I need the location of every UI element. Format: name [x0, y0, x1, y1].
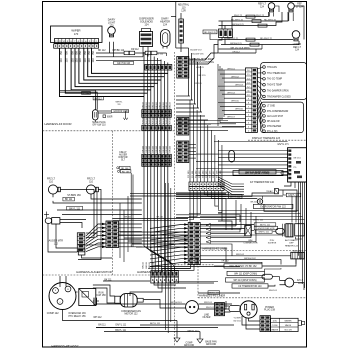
svg-text:THJ-DAMPER OPEN: THJ-DAMPER OPEN — [267, 90, 289, 93]
dispenser wire labels — [59, 51, 95, 63]
svg-text:RY-L1 (W): RY-L1 (W) — [267, 131, 278, 133]
main connector labels — [167, 227, 175, 245]
svg-text:OR 111: OR 111 — [168, 243, 176, 245]
extra top right wires — [219, 45, 263, 54]
mid horizontal pair — [113, 217, 189, 221]
svg-text:OR 170: OR 170 — [194, 83, 202, 85]
label WH 112 disp conn — [239, 170, 276, 174]
svg-text:WH 172: WH 172 — [234, 15, 243, 17]
svg-text:HEATER 124: HEATER 124 — [285, 245, 299, 248]
label HARNESS-GASKET — [137, 270, 163, 274]
evap down verticals — [222, 199, 226, 230]
labels yl-wh — [233, 318, 241, 323]
svg-text:HARNESS-WD ASSY: HARNESS-WD ASSY — [51, 344, 78, 348]
svg-text:WH 165: WH 165 — [231, 101, 239, 103]
wire lower light run2 — [221, 41, 299, 46]
svg-text:OR110: OR110 — [163, 145, 165, 153]
left edge connector block A — [177, 118, 189, 136]
ref light 1 bulb — [258, 3, 275, 12]
label bk-yl boxed 2 — [286, 193, 301, 197]
boxed label wh112 disp conn mid — [233, 171, 289, 176]
label fz thermistor 140 — [250, 181, 275, 184]
trunk connector block 2 — [142, 125, 172, 130]
terminal box lower — [261, 102, 304, 133]
svg-text:WH 161: WH 161 — [206, 307, 215, 309]
svg-text:LT 124: LT 124 — [296, 6, 304, 8]
svg-text:DEF HEATER 170 BK 162: DEF HEATER 170 BK 162 — [229, 265, 257, 268]
wire wh-yl long — [96, 327, 218, 329]
svg-text:BK 111: BK 111 — [168, 227, 175, 229]
svg-text:DEF: DEF — [289, 243, 294, 245]
svg-text:BK/WH 170: BK/WH 170 — [230, 43, 242, 45]
section divider harness-auger — [43, 274, 175, 276]
svg-text:RD 166: RD 166 — [122, 171, 130, 173]
label HARNESS-WD ASSY — [51, 344, 78, 348]
vertical wires right mid — [189, 48, 201, 112]
trunk label band 4 — [142, 261, 154, 268]
svg-text:RUN: RUN — [99, 292, 104, 294]
svg-text:WH 112 (DISP CONN): WH 112 (DISP CONN) — [245, 172, 269, 175]
label st-brn 166 — [67, 194, 81, 197]
wires from hot liner to bar — [189, 40, 219, 64]
svg-text:OR110: OR110 — [159, 145, 161, 153]
svg-text:SLEEVE: SLEEVE — [268, 243, 277, 245]
svg-text:BK 111: BK 111 — [251, 202, 259, 204]
svg-text:GY 164: GY 164 — [202, 170, 204, 178]
mid horizontal pair2 — [130, 194, 283, 196]
svg-text:OR110: OR110 — [156, 145, 158, 153]
svg-text:OR 112: OR 112 — [82, 93, 90, 95]
labels bluw — [190, 50, 206, 86]
section divider vertical left — [112, 131, 114, 275]
svg-text:BK-WH 170: BK-WH 170 — [204, 32, 216, 34]
trunk bottom connector — [151, 271, 179, 283]
dispenser pin row 1 — [55, 39, 99, 44]
bottom right pin strip — [215, 303, 225, 316]
dispenser wire fan — [60, 48, 168, 96]
svg-text:GRN/OR 110: GRN/OR 110 — [113, 111, 127, 113]
label harness-hot-liner — [188, 58, 215, 64]
dispenser solenoid — [139, 18, 154, 57]
svg-text:P5: P5 — [294, 167, 297, 169]
svg-text:AUGER: AUGER — [119, 153, 127, 156]
small resistor — [123, 118, 127, 120]
terminal box upper — [261, 63, 307, 100]
svg-text:GY 168: GY 168 — [217, 170, 219, 178]
svg-text:WH 167: WH 167 — [227, 117, 235, 119]
ground comp — [150, 321, 194, 348]
bottom right wires1 — [214, 259, 304, 292]
svg-text:WR 161: WR 161 — [204, 302, 213, 304]
strip to box links — [257, 67, 262, 131]
main connector right arrows — [206, 200, 256, 243]
compressor circle — [47, 283, 76, 315]
diagonal bundle evap — [218, 177, 244, 194]
label harness-fz liner — [203, 246, 228, 250]
inline connector pair 2 — [145, 51, 157, 55]
wire lower light run — [219, 38, 294, 41]
freezer right wires — [119, 224, 142, 247]
plug bottom wires — [242, 316, 260, 329]
svg-text:RD-WH 172: RD-WH 172 — [231, 19, 244, 21]
svg-text:OR110: OR110 — [149, 145, 151, 153]
svg-text:BLU/W 191: BLU/W 191 — [192, 54, 204, 56]
boxed label fz thermistor2 — [232, 284, 268, 288]
ground base pan — [150, 332, 217, 347]
svg-text:OR110: OR110 — [146, 145, 148, 153]
inline connector pair 1 — [124, 51, 135, 55]
terminal strip left wires — [218, 68, 246, 126]
power plug — [229, 301, 276, 318]
capsule component mid — [229, 151, 235, 163]
svg-text:POWER: POWER — [265, 307, 274, 309]
connector down wires — [148, 265, 240, 273]
svg-text:WH/BK 112: WH/BK 112 — [112, 50, 125, 52]
label bn 111 — [98, 325, 106, 327]
svg-text:WH 172: WH 172 — [256, 15, 265, 17]
svg-text:GE 161: GE 161 — [293, 158, 301, 160]
label bk 111 comp — [104, 279, 112, 281]
neutral component — [179, 13, 184, 52]
svg-text:WH 162: WH 162 — [231, 76, 239, 78]
svg-text:PTC RELAY 156: PTC RELAY 156 — [68, 315, 86, 318]
svg-text:BK 170: BK 170 — [199, 75, 207, 77]
dispenser pin row 2 — [54, 44, 99, 48]
svg-text:(XX): (XX) — [273, 321, 277, 323]
ptc relay — [68, 289, 95, 318]
svg-text:GN/YL 111: GN/YL 111 — [288, 195, 299, 197]
svg-text:110: 110 — [49, 181, 53, 184]
horiz runs to right edge — [200, 211, 305, 220]
svg-text:WH 113 (DISP CONN): WH 113 (DISP CONN) — [233, 280, 256, 282]
svg-text:RT1-COMPRESSOR: RT1-COMPRESSOR — [267, 111, 289, 113]
svg-text:BK110: BK110 — [163, 101, 165, 108]
svg-text:124: 124 — [260, 6, 265, 8]
svg-text:RTD-HEATER: RTD-HEATER — [267, 125, 282, 128]
svg-text:BASE PAN: BASE PAN — [205, 340, 217, 343]
svg-text:GROUND: GROUND — [206, 344, 217, 346]
label triac — [266, 189, 278, 194]
svg-text:WATER: WATER — [271, 328, 279, 331]
svg-text:GR-YLW 110: GR-YLW 110 — [117, 63, 131, 65]
svg-text:GY 169: GY 169 — [220, 170, 222, 178]
dairy light wires — [110, 42, 114, 57]
wires below control board — [284, 182, 295, 188]
svg-text:BK110: BK110 — [166, 101, 168, 108]
labels top runs — [98, 49, 164, 55]
svg-text:BK 111: BK 111 — [104, 279, 112, 281]
bottom long wires — [140, 323, 234, 333]
svg-text:AUX-AUX STAT: AUX-AUX STAT — [267, 115, 284, 118]
svg-text:BK/WH 170: BK/WH 170 — [232, 24, 244, 26]
top right corner wires — [275, 6, 304, 40]
svg-text:170: 170 — [109, 25, 114, 28]
def bimetal — [245, 226, 252, 236]
main connector right exits — [200, 226, 244, 262]
label evaporator fan — [253, 204, 293, 208]
frz light 1 — [47, 178, 60, 195]
svg-text:BLU/W 172: BLU/W 172 — [190, 50, 202, 52]
svg-text:FUSE: FUSE — [191, 256, 197, 258]
svg-text:111: 111 — [117, 104, 121, 106]
wire top lights run1 — [232, 12, 269, 18]
section divider vertical right-bottom — [197, 251, 199, 298]
dispenser control box — [51, 26, 103, 42]
central trunk bundle — [144, 52, 174, 272]
trunk label band 3 — [142, 145, 171, 153]
svg-text:GY 165: GY 165 — [206, 170, 208, 178]
label display harness — [248, 137, 306, 140]
svg-text:OR 162: OR 162 — [221, 261, 229, 263]
svg-text:OR110: OR110 — [170, 145, 172, 153]
svg-text:BIM: BIM — [248, 240, 252, 242]
wire top lights run3 — [219, 12, 283, 27]
tall terminal strip — [246, 68, 258, 133]
label bk-yl boxed 1 — [229, 195, 243, 199]
svg-text:HARNESS-FZ DOOR: HARNESS-FZ DOOR — [44, 122, 71, 126]
svg-text:GN/YL 171: GN/YL 171 — [277, 144, 289, 146]
dairy heater — [160, 18, 170, 49]
svg-text:GY 162: GY 162 — [195, 170, 197, 178]
neutral wires — [171, 2, 189, 48]
boxed label wh113 — [226, 278, 265, 282]
mid verticals — [120, 183, 171, 333]
boxed label wh111 — [227, 271, 265, 275]
svg-text:LINE: LINE — [204, 314, 210, 316]
section divider vertical center — [174, 52, 176, 347]
top right bar wires — [219, 17, 233, 45]
svg-text:COMP: COMP — [186, 342, 193, 344]
svg-text:GY 161: GY 161 — [192, 170, 194, 178]
left pin strip — [106, 221, 119, 248]
stack down wires — [131, 173, 133, 247]
svg-text:BK110: BK110 — [149, 101, 151, 108]
frz light 2 — [86, 178, 98, 195]
svg-text:CONNECTOR: CONNECTOR — [243, 243, 257, 245]
top right connector bar — [219, 29, 233, 38]
section divider harness-fz door — [43, 130, 175, 132]
svg-text:RH-ACE DR: RH-ACE DR — [267, 120, 280, 123]
label bk 111 — [63, 197, 75, 201]
trunk label band 2 — [142, 116, 171, 124]
wd 163 block — [291, 250, 304, 259]
label wh-yl 111 — [116, 102, 124, 107]
boxed label bk-wh 170 — [203, 30, 219, 40]
wire gr-ylw long — [96, 61, 162, 65]
ice maker wires — [60, 90, 129, 122]
svg-text:REF: REF — [297, 4, 302, 6]
svg-text:DISPLAY HARNESS 123: DISPLAY HARNESS 123 — [252, 137, 281, 140]
small component bottom — [78, 249, 112, 258]
svg-text:YL/WH: YL/WH — [234, 318, 241, 320]
ice maker plug capsule — [93, 110, 99, 120]
connector strip mid — [189, 182, 224, 191]
svg-text:HARNESS-AUGER MOTOR: HARNESS-AUGER MOTOR — [76, 270, 112, 274]
svg-text:MOTOR 122: MOTOR 122 — [125, 314, 139, 316]
svg-text:OR110: OR110 — [142, 145, 144, 153]
svg-text:GR/YL 111: GR/YL 111 — [258, 232, 269, 234]
svg-text:CONDENSER FAN: CONDENSER FAN — [121, 310, 141, 313]
legend side part — [298, 321, 305, 326]
svg-text:BK111: BK111 — [142, 261, 144, 268]
small fuse box — [190, 256, 198, 262]
svg-text:WH 163: WH 163 — [235, 84, 243, 86]
svg-text:WH/YL 111: WH/YL 111 — [208, 293, 220, 295]
svg-text:GY 166: GY 166 — [210, 170, 212, 178]
thermistor capsule — [262, 268, 281, 279]
svg-text:BK111: BK111 — [146, 261, 148, 268]
svg-text:WH 170: WH 170 — [196, 67, 204, 69]
svg-text:OVERLOAD 136: OVERLOAD 136 — [68, 312, 86, 315]
line filter — [186, 301, 211, 320]
left strip wires — [86, 223, 106, 252]
svg-text:WH 161: WH 161 — [269, 290, 278, 292]
border frame — [43, 2, 307, 348]
section divider harness-gasket bottom — [175, 264, 215, 266]
svg-text:FILTER: FILTER — [203, 317, 211, 319]
wires below strip — [189, 191, 226, 223]
control board box — [288, 148, 307, 182]
svg-text:RD-WH 172: RD-WH 172 — [260, 38, 273, 40]
svg-text:S: S — [55, 290, 57, 292]
label HARNESS-AUGER MOTOR — [76, 270, 112, 274]
def labels — [243, 220, 298, 248]
svg-text:LT GND: LT GND — [267, 106, 275, 108]
svg-text:BK 112: BK 112 — [98, 50, 106, 52]
svg-text:VALVE: VALVE — [285, 324, 292, 327]
svg-text:WH 111 (DISP CONN): WH 111 (DISP CONN) — [234, 274, 257, 276]
svg-text:FZ LT: FZ LT — [297, 280, 304, 282]
svg-text:ST-BRN 166: ST-BRN 166 — [67, 194, 81, 197]
svg-text:RD-WH 172: RD-WH 172 — [226, 38, 239, 40]
svg-text:GY 167: GY 167 — [213, 170, 215, 178]
svg-text:BK110: BK110 — [156, 101, 158, 108]
svg-text:CAP 158: CAP 158 — [96, 294, 106, 297]
svg-text:12R: 12R — [181, 10, 186, 13]
control board wires — [196, 151, 288, 176]
svg-text:TRIAC: TRIAC — [266, 190, 273, 193]
svg-text:PVU: PVU — [270, 240, 275, 242]
stack boxed labels — [117, 166, 131, 173]
svg-text:BK/WH 161: BK/WH 161 — [170, 302, 182, 304]
svg-text:BK110: BK110 — [159, 101, 161, 108]
right mid horiz wires — [176, 96, 211, 124]
svg-text:170: 170 — [74, 32, 79, 36]
svg-text:WH 111: WH 111 — [167, 235, 175, 237]
svg-text:GY 160: GY 160 — [188, 170, 190, 178]
connector stack bottom right — [260, 316, 271, 332]
svg-text:SOL DR: SOL DR — [284, 329, 292, 331]
svg-text:110: 110 — [89, 181, 93, 184]
svg-text:M: M — [67, 289, 69, 291]
svg-text:THJ-CO TEMP: THJ-CO TEMP — [267, 79, 283, 81]
svg-text:CODE: CODE — [272, 325, 278, 327]
right mid long bundle — [188, 100, 222, 182]
svg-text:THU-THERM FAN: THU-THERM FAN — [267, 72, 286, 75]
fz light side — [280, 278, 304, 287]
label bk-yl 111 — [67, 206, 83, 210]
svg-text:124: 124 — [163, 24, 168, 27]
svg-text:OR110: OR110 — [153, 145, 155, 153]
wire top lights run2 — [219, 12, 289, 23]
label gn-yl 111 — [115, 325, 127, 327]
svg-text:GROUND: GROUND — [184, 345, 195, 347]
svg-text:YL 112: YL 112 — [156, 54, 163, 56]
svg-text:BK/WH 162: BK/WH 162 — [244, 258, 256, 260]
svg-text:WH 161: WH 161 — [227, 68, 235, 70]
wire top run A — [96, 53, 167, 56]
svg-text:GR-YLW 110: GR-YLW 110 — [92, 125, 106, 127]
svg-text:124: 124 — [295, 50, 300, 52]
main connector block — [188, 223, 200, 265]
svg-text:TRI/DAMPER CLOSED: TRI/DAMPER CLOSED — [267, 95, 291, 98]
svg-text:REF LT: REF LT — [293, 47, 301, 49]
right verticals to defrost — [292, 196, 296, 223]
left vertical feeders — [218, 64, 224, 126]
svg-text:BK 112: BK 112 — [95, 98, 103, 100]
svg-text:WR 162: WR 162 — [236, 254, 245, 256]
svg-text:GN/YL 111: GN/YL 111 — [115, 325, 127, 327]
mid connector stack — [77, 233, 85, 252]
def capsule — [276, 224, 285, 237]
svg-text:THD-FAN: THD-FAN — [267, 66, 277, 69]
trunk label band 1 — [142, 101, 171, 108]
label bk-yl 111 bottom — [115, 330, 126, 332]
svg-text:PLUG 158: PLUG 158 — [264, 310, 276, 312]
label grn-or 110 boxed — [111, 110, 128, 113]
wire wh-yl 111 boxed — [198, 291, 240, 295]
line filter wires — [96, 300, 232, 310]
wires evap area — [176, 190, 297, 230]
def boxed labels — [254, 223, 278, 234]
lower ref light bulb — [292, 31, 301, 52]
svg-text:COMP 122: COMP 122 — [47, 312, 59, 315]
evap fan motor — [251, 199, 263, 204]
trunk connector block 1 — [142, 110, 172, 118]
auger wires — [48, 220, 104, 253]
trunk connector block 3 — [142, 154, 172, 166]
dairy light bulb — [108, 19, 116, 37]
svg-text:GN/YL 111: GN/YL 111 — [253, 220, 264, 222]
legend table — [271, 318, 299, 331]
svg-text:AUTOMATIC: AUTOMATIC — [285, 239, 298, 242]
label bk 112 boxed — [93, 97, 103, 101]
svg-text:RD-WH 172: RD-WH 172 — [264, 19, 277, 21]
plug wires — [225, 306, 231, 312]
bottom mid wires — [200, 254, 296, 264]
ref light 2 bulb — [288, 3, 304, 12]
svg-text:BK110: BK110 — [153, 101, 155, 108]
svg-text:WH 112: WH 112 — [93, 317, 102, 319]
mid text stack — [118, 152, 127, 162]
svg-text:OR110: OR110 — [166, 145, 168, 153]
freezer wires — [53, 190, 142, 260]
svg-text:WH 172 (ICE MKR): WH 172 (ICE MKR) — [230, 47, 249, 49]
def heater block — [286, 224, 293, 237]
svg-text:FZ THERMISTOR 140: FZ THERMISTOR 140 — [238, 286, 262, 288]
svg-text:WH 164: WH 164 — [227, 92, 235, 94]
svg-text:BK/YL 111: BK/YL 111 — [115, 330, 126, 332]
svg-text:BK110: BK110 — [142, 101, 144, 108]
svg-text:GD 161: GD 161 — [233, 321, 241, 323]
harness hot liner connector — [177, 57, 189, 79]
svg-text:124: 124 — [298, 283, 303, 285]
label wh 112 bottom — [93, 317, 102, 319]
compressor wires — [60, 276, 150, 332]
svg-text:BK 111: BK 111 — [157, 217, 165, 219]
svg-text:SLT: SLT — [121, 160, 126, 162]
svg-text:BN 111: BN 111 — [98, 325, 106, 327]
